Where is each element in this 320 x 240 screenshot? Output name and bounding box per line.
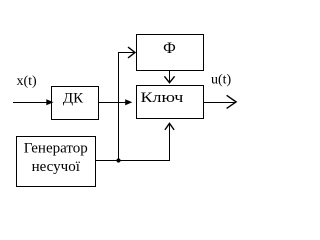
svg-text:ДК: ДК (63, 91, 84, 107)
svg-text:Генератор: Генератор (24, 141, 88, 157)
wire Генератор несучої to Ключ (right then up) (96, 124, 170, 161)
arrowhead solid into ДК (46, 99, 53, 105)
arrowhead open up into Ключ (165, 123, 174, 130)
block U1 filter "Ф" (137, 35, 204, 71)
arrowhead open into Ф (128, 47, 135, 58)
svg-text:Ф: Ф (163, 40, 176, 57)
junction dot at branch node (116, 158, 120, 162)
wire input x(t) into ДК (13, 102, 47, 104)
arrowhead solid into Ключ (125, 99, 132, 105)
wire ДК to Ключ (99, 102, 126, 104)
arrowhead open down into Ключ (164, 76, 174, 82)
block U4 carrier generator "Генератор несучої" (17, 137, 96, 187)
wire output from Ключ to u(t) (204, 102, 235, 104)
wire branch vertical from junction up to Ф-feed corner (119, 53, 135, 161)
svg-text:несучої: несучої (32, 159, 81, 175)
wire Ф down to Ключ (169, 71, 171, 83)
svg-text:Ключ: Ключ (141, 88, 184, 105)
block U3 switch "Ключ" (137, 86, 204, 119)
block U2 detector-coder "ДК" (52, 87, 99, 120)
svg-text:x(t): x(t) (17, 74, 38, 89)
arrowhead open output u(t) (227, 95, 237, 108)
svg-text:u(t): u(t) (211, 73, 232, 88)
